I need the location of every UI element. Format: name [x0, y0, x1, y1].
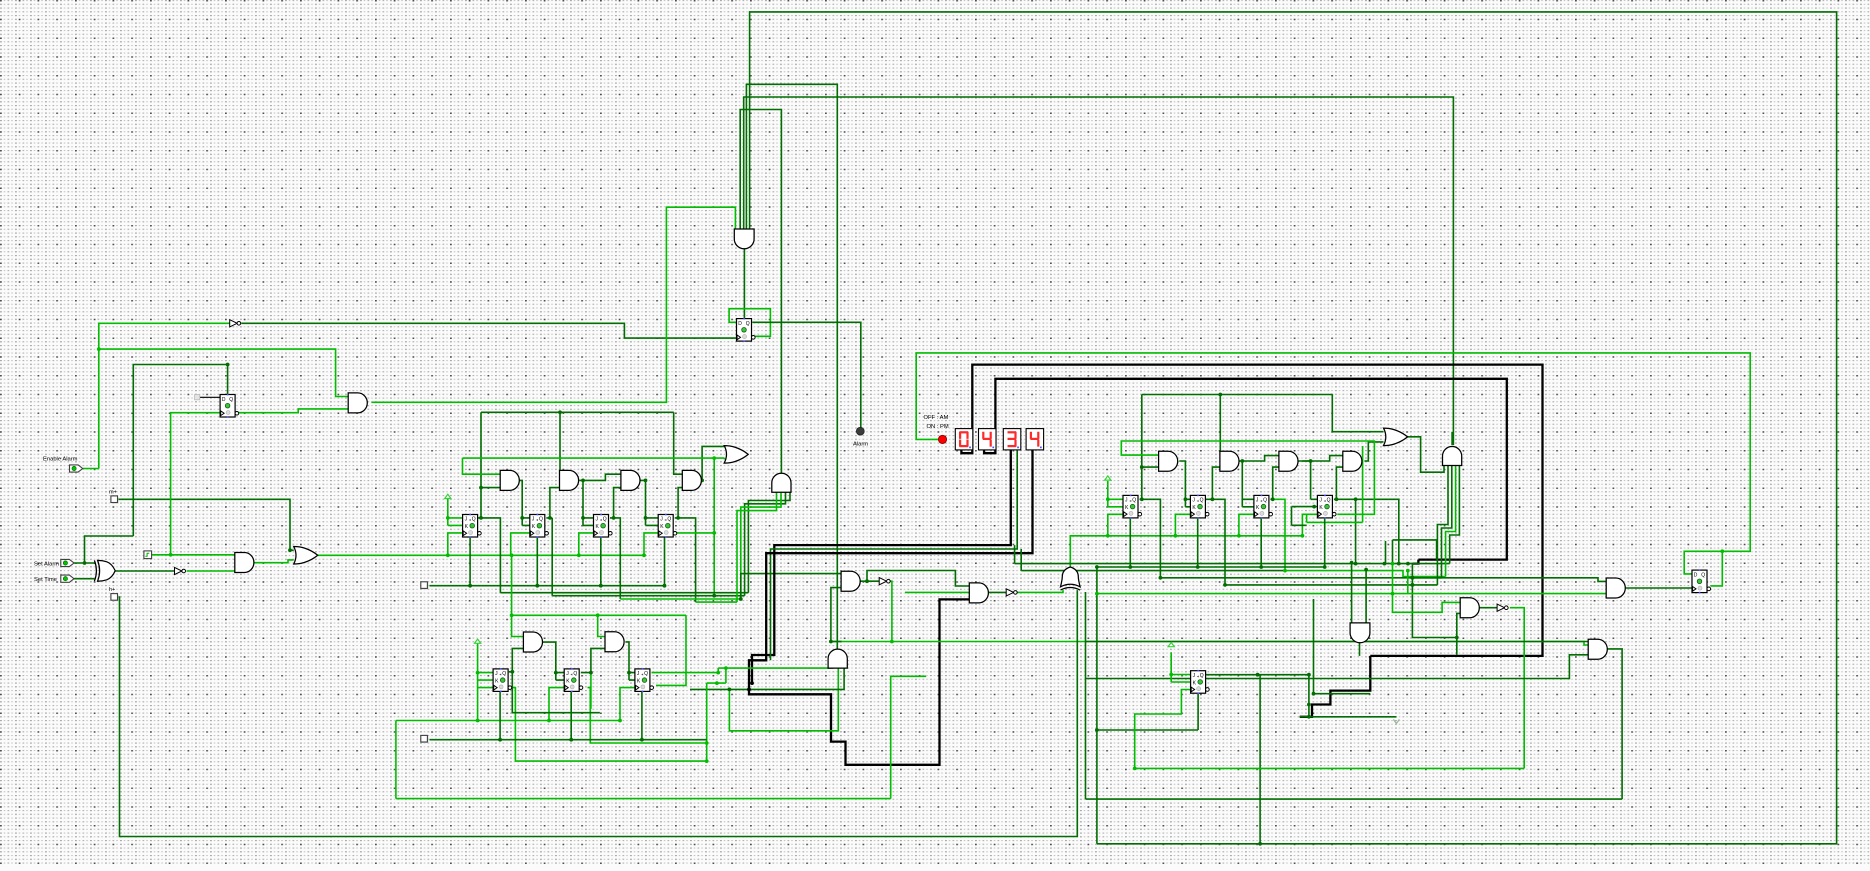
wire Q1 top line: [1142, 394, 1333, 396]
display DS2 digit 4: [979, 429, 997, 450]
wire clock CLK1 to AND U7: [152, 554, 235, 556]
wire bundle row 1 to AND G20: [1450, 466, 1460, 564]
wire NAND U8 output to flip-flop U14: [743, 249, 745, 319]
wire knot row: [707, 682, 726, 684]
wire branch down: [1308, 675, 1310, 717]
wire clock stub FF1: [448, 533, 463, 555]
wire FF H3 Q down to bundle: [1273, 499, 1285, 570]
wire bundle row 2 to AND G20: [1446, 466, 1456, 577]
wire bundle vertical: [1313, 599, 1315, 694]
wire bundle row 4: [1225, 584, 1437, 586]
wire to AND G8 input 2: [905, 591, 969, 593]
wire carry-enable line to AND G1: [463, 458, 715, 474]
wire NOT U9 output down: [889, 581, 892, 641]
wire clock stub FF2: [511, 533, 530, 555]
wire Enable Alarm to NOT U2: [83, 323, 230, 468]
wire clock stub FF4: [644, 533, 658, 555]
wire bundle drop: [1385, 541, 1387, 564]
wire FF2 Q to AND G2: [546, 488, 559, 518]
wire FF H1 Q to AND G15 and up: [1142, 395, 1159, 500]
wire bus row 1: [500, 592, 748, 594]
led Alarm: [856, 427, 864, 435]
wire lower reset line: [430, 739, 707, 741]
wire AND G2 output to FF3 J K: [579, 480, 593, 525]
and gate G25 facing down: [1350, 623, 1370, 643]
wire bus row 3: [620, 598, 741, 600]
wire bus drop to bundle row 2: [1021, 549, 1285, 571]
probe mark: [1393, 719, 1399, 723]
wire XOR G9 output - hour clock line: [1070, 536, 1302, 567]
wire hour reset line: [1097, 566, 1325, 568]
wire match line to AND G24: [831, 642, 1588, 646]
wire FF H4 Q to bundle drop 2: [1356, 499, 1399, 563]
and gate G23: [1460, 598, 1479, 618]
and gate G15: [1159, 451, 1178, 471]
wire long match line to AND G22 input 1: [1086, 641, 1589, 643]
input pin Set Alarm: [61, 559, 74, 566]
wire FF L1 Qbar to knot: [512, 688, 707, 762]
wire bright staircase FF H4 clock: [1307, 446, 1363, 522]
and gate G17: [1279, 451, 1298, 471]
wire AND G11 output to FF L3 J K: [625, 642, 635, 680]
wire bus drop to bundle row 1: [1015, 545, 1450, 564]
or gate G5 minute carry: [724, 446, 748, 464]
flip-flop FF4 minute: [658, 514, 677, 538]
display DS1 digit 0: [955, 429, 973, 450]
and gate G24: [1606, 578, 1625, 598]
wire bundle to AND G24 input 2: [1097, 593, 1606, 595]
wire power and clock FF L1: [478, 643, 494, 721]
wire clock branch to flip-flop U13 clock: [171, 413, 221, 555]
svg-text:Enable Alarm: Enable Alarm: [43, 457, 78, 463]
wire FF H1 Q down to bundle: [1142, 499, 1161, 578]
wire carry line to FF L3 Qbar: [656, 615, 686, 685]
wire FF H2 Q to AND G16: [1206, 467, 1220, 499]
wire hour FF reset stub: [1324, 518, 1326, 567]
wire AND G18 output to OR G19: [1364, 442, 1383, 461]
wire dangling line: [1300, 716, 1397, 718]
wire FF H4 Q down to bundle: [1336, 499, 1355, 563]
wire branch to OR G19 top: [1332, 395, 1383, 432]
wire FF L1 Q lower route: [512, 672, 600, 713]
output pin m=: [421, 582, 429, 590]
wire power to FF U21 J K: [1171, 652, 1190, 682]
wire AND U3 output to NAND U8 input 1: [371, 207, 735, 402]
bus display DS3 to minute decode: [752, 450, 1011, 683]
wire AND U7 output to OR U6: [254, 560, 294, 563]
or gate G19 hour carry: [1384, 428, 1408, 446]
wire AND G20 output to NAND U8 input 3: [744, 97, 1454, 445]
wire Q1 line drop to AND G4 top: [674, 412, 683, 474]
output pin m+: [111, 496, 119, 504]
wire hour clock stub FF H3: [1239, 514, 1254, 536]
wire knot cross link: [725, 668, 727, 683]
wire AND G10 output to FF L2 J K: [542, 642, 564, 680]
wire branch to AND G16 top: [1219, 395, 1221, 456]
and gate G1: [500, 470, 519, 490]
wire knot detour to AND G12 input 2: [729, 667, 838, 731]
wire FF U21 reset: [1097, 693, 1198, 730]
bus display DS2 to hour decode: [984, 379, 1507, 560]
wire FF H2 Q down to bundle: [1212, 499, 1225, 585]
wire Set Alarm to XOR U4: [74, 562, 94, 564]
bus jog: [1412, 560, 1418, 564]
wire flip-flop U14 Q to Alarm LED: [752, 322, 861, 427]
wire branch down to bus row: [713, 458, 715, 596]
wire bundle link down: [1392, 564, 1394, 594]
wire bundle row 3 to AND G24 input 1: [1412, 578, 1606, 582]
or gate U6 gated clock: [294, 547, 318, 565]
xor gate G9 hour clock: [1061, 567, 1081, 590]
wire minute reset line: [430, 585, 665, 587]
wire bundle to AND G23 input 1: [1393, 594, 1461, 613]
and gate G20 hour match: [1443, 447, 1462, 466]
power constant P2: [1105, 476, 1111, 480]
wire knot to AND G12 input 3: [690, 667, 844, 690]
not gate U11: [1497, 604, 1508, 611]
wire clock to FF U21: [1135, 690, 1191, 769]
wire FF4 Q to AND G4: [675, 488, 683, 518]
and gate G2: [560, 470, 579, 490]
wire junction dots: [83, 347, 1725, 845]
wire Set Alarm branch to flip-flop U13 preset: [85, 365, 228, 564]
wire clock stub FF L3: [620, 688, 635, 721]
wire lower feedback line: [396, 798, 891, 800]
wire AND G6 output to NAND U8 input 2: [740, 110, 781, 474]
flip-flop FFH2 hour: [1190, 495, 1209, 519]
power constant P1: [445, 494, 451, 498]
wire AND G16 output to AND G17 top: [1242, 456, 1279, 461]
wire FF4 Q down to bus row: [678, 518, 696, 602]
wire line to AND G22 input 2: [1086, 655, 1589, 679]
bus tail to AND G8: [749, 599, 969, 764]
wire to OR G5 input: [714, 458, 724, 459]
wire FF H4 Qbar to AND G15 top: [1121, 441, 1374, 514]
wire feedback branch: [891, 676, 927, 798]
nand gate U8 alarm compare: [734, 229, 754, 249]
bus display DS1 to hour decode: [961, 365, 1542, 656]
wire lower FF reset stub: [641, 692, 643, 740]
wire bus row 4 up to AND G6: [737, 492, 777, 602]
xor gate U4 set-select: [94, 560, 115, 581]
power constant P4: [1168, 643, 1174, 647]
wire FF reset stub: [536, 536, 538, 586]
wire NOT U5 output to AND U7: [187, 570, 235, 572]
flip-flop FF3 minute: [594, 514, 613, 538]
wire lower FF reset stub: [499, 692, 501, 740]
wire NOT U2 output to flip-flop U14 clock: [241, 323, 736, 338]
wire AND G4 output to OR G5: [701, 446, 724, 480]
wire branch to hour reset line: [1096, 567, 1098, 844]
wire clock stub FF3: [579, 533, 594, 555]
wire FF L1 Q to AND G10: [509, 648, 524, 671]
wire bundle row to AND G25 input 1: [1351, 563, 1353, 623]
input pin Enable Alarm: [70, 465, 83, 472]
not gate U2 enable inverter: [230, 320, 241, 327]
flip-flop U13 set-mode: [220, 394, 239, 418]
wire AND G12 output to NAND U8 input 4: [746, 84, 837, 649]
wire AND G3 output to FF4 J K: [640, 480, 659, 525]
wire OR G19 output to AND G20 input 1: [1405, 437, 1444, 472]
and gate G3: [621, 470, 640, 490]
wire branch to AND G11 top: [598, 615, 605, 636]
wire power to FF1 J K: [448, 498, 463, 525]
clock source CLK1: [144, 551, 152, 559]
wire AND G25 output stub: [1359, 642, 1361, 656]
wire bundle row 3 to AND G20: [1442, 466, 1452, 578]
wire AND G23 output to NOT U11: [1479, 607, 1497, 609]
wire: [1456, 638, 1458, 655]
wire gated clock line minutes: [318, 554, 646, 556]
wire FF3 Q to AND G3: [610, 488, 621, 518]
wire AND G22 output feedback line: [1086, 649, 1623, 799]
and gate U3 set-compare: [348, 393, 367, 413]
and gate G22: [1588, 639, 1607, 659]
wire FF L2 Q to AND G11: [581, 648, 605, 672]
wire bus row 3 up to AND G6: [741, 492, 781, 599]
wire FF reset stub: [664, 536, 666, 586]
wire feedback to lower clock line: [395, 721, 397, 799]
wire bundle row 4 to AND G20: [1437, 466, 1448, 585]
svg-text:Alarm: Alarm: [853, 442, 868, 448]
wire to AND G7 input 2: [831, 588, 841, 642]
and gate G10: [523, 632, 542, 652]
wire hour FF reset stub: [1129, 518, 1131, 567]
wire bundle link: [1312, 693, 1370, 695]
wire bundle link up: [1393, 540, 1437, 564]
wire FF H1 Q: [1140, 498, 1142, 500]
and gate G16: [1220, 451, 1239, 471]
wire FF L2 Qbar to knot: [588, 688, 707, 743]
wire hour FF reset stub: [1197, 518, 1199, 567]
wire hour clock stub FF H4: [1302, 514, 1317, 536]
wire AND G17 output to AND G18 top: [1302, 456, 1343, 461]
and gate G11: [605, 632, 624, 652]
wire FF U22 Qbar feedback to D: [1684, 551, 1722, 586]
wire FF1 Q to AND G1: [478, 488, 501, 518]
wire lower carry line: [512, 614, 686, 616]
wire flip-flop U13 Qbar to AND U3: [239, 409, 348, 413]
wire branch from FF U21 Q line: [1259, 675, 1261, 844]
wire stub: [831, 641, 842, 643]
wire m+ to OR U6 top input: [118, 499, 294, 550]
flip-flop FF2 minute: [530, 514, 549, 538]
svg-text:OFF : AM: OFF : AM: [924, 415, 949, 421]
and gate G12 lower match: [828, 649, 847, 668]
bus display DS4 to minute decode: [749, 450, 1033, 689]
display DS3 digit 3: [1003, 429, 1021, 450]
wire knot drop: [706, 683, 708, 761]
led AM-PM indicator: [938, 435, 946, 443]
wire lower clock line: [396, 720, 620, 722]
wire FF H4 K from left: [1292, 507, 1318, 526]
wire clock stub FF L2: [549, 688, 564, 721]
wire FF U21 Q line: [1206, 674, 1309, 676]
svg-text:ON : PM: ON : PM: [927, 424, 949, 430]
and gate G8: [969, 583, 988, 603]
wire bundle row 3: [1160, 577, 1441, 579]
wire bus row 3 branch to AND G7: [741, 574, 841, 599]
wire AND G7 output to NOT U9: [860, 580, 879, 582]
wire FF1 Q up to Q1 line: [480, 412, 482, 487]
wire AND G7 branch to AND G8 input 1: [867, 571, 969, 587]
and gate G7: [841, 571, 860, 591]
wire FF L2 Q down: [590, 673, 592, 709]
and gate G18: [1343, 451, 1362, 471]
flip-flop FFL1: [493, 668, 512, 692]
wire Q1 line drop to AND G2 top: [559, 412, 561, 474]
wire hour-set clock line: [1135, 767, 1525, 769]
wire FF4 Qbar to carry line: [677, 532, 715, 534]
wire enable branch to AND U3 top input: [99, 349, 348, 396]
flip-flop U14 alarm latch: [737, 318, 756, 342]
output pin s=: [421, 735, 429, 743]
wire bus row 1 up to AND G6: [748, 492, 790, 592]
wire power to FF H1 J K: [1108, 481, 1123, 507]
wire AND G17 output to FF H4 J: [1298, 461, 1317, 499]
and gate G6 minute match: [772, 473, 791, 492]
not gate U10: [1006, 589, 1017, 596]
wire AM-PM LED to FF U22: [916, 353, 1750, 551]
wire NOT U10 output to XOR G9: [1017, 590, 1063, 592]
wire bundle vertical bright: [1407, 571, 1409, 594]
output pin h+: [111, 594, 119, 602]
wire Q1 line: [481, 411, 674, 413]
not gate U9: [879, 578, 890, 585]
flip-flop FFH3 hour: [1254, 495, 1273, 519]
wire AND G2 output to AND G3 top: [583, 474, 621, 480]
wire hour clock stub FF H1: [1108, 514, 1123, 536]
display DS4 digit 4: [1026, 429, 1044, 450]
wire bus row 4: [696, 601, 737, 603]
svg-text:h+: h+: [109, 587, 115, 593]
wire bus tail to AND G23: [1412, 564, 1460, 638]
flip-flop FFL3: [635, 668, 654, 692]
wire hour clock stub FF H2: [1175, 514, 1190, 536]
wire FF Q to knot: [652, 672, 719, 674]
wire display DS3 second line: [771, 451, 1018, 661]
power constant P3: [475, 639, 481, 643]
wire h+ to XOR G9 input 2: [118, 590, 1077, 836]
wire hour FF reset stub: [1260, 518, 1262, 567]
bus jog hour decode: [1300, 656, 1371, 717]
wire knot to AND G12 input 1: [718, 667, 832, 673]
wire bundle row 2: [1285, 571, 1446, 577]
and gate U7 clock gate: [235, 553, 254, 573]
flip-flop U22 am-pm: [1692, 569, 1711, 593]
not gate U5: [175, 567, 186, 574]
wire lower FF reset stub: [570, 692, 572, 740]
wire bus row 2 up to AND G6: [745, 492, 786, 595]
wire FF1 Q down to bus row: [481, 518, 500, 593]
svg-text:Set Time: Set Time: [34, 577, 57, 583]
svg-text:m+: m+: [109, 490, 117, 496]
flip-flop FFH4 hour: [1317, 495, 1336, 519]
flip-flop FF1 minute: [463, 514, 482, 538]
wire flip-flop U14 Qbar feedback to D: [729, 309, 770, 337]
wire FF reset stub: [600, 536, 602, 586]
wire Set Time to XOR U4: [74, 578, 94, 580]
flip-flop FFL2: [564, 668, 583, 692]
wire branch down to feedback line: [1085, 592, 1087, 799]
wire FF H3 Q to AND G17: [1270, 467, 1279, 499]
wire XOR U4 output to NOT U5: [115, 570, 174, 572]
wire AND G8 output to NOT U10: [988, 591, 1007, 593]
wire AND G20 output stub: [1451, 432, 1453, 445]
input pin Set Time: [61, 575, 74, 582]
wire AND G15 output to FF H2 J K: [1179, 461, 1190, 507]
wire AND G16 output to FF H3 J K: [1238, 461, 1254, 507]
wire FF H4 Q to AND G18: [1334, 467, 1343, 499]
wire loop line to NAND U8 input 5: [750, 12, 1837, 844]
wire NOT U11 output down: [1510, 608, 1524, 769]
and gate G4: [682, 470, 701, 490]
wire AND G24 output to FF U22 clock: [1626, 587, 1692, 589]
wire bundle row to AND G25 input 2: [1365, 570, 1367, 623]
flip-flop FFH1 hour: [1123, 495, 1142, 519]
svg-text:Set Alarm: Set Alarm: [34, 562, 59, 568]
wire bus row 2: [552, 595, 744, 597]
wire AND G1 output to FF2 J K: [519, 480, 530, 525]
wire FF3 Q down to bus row: [614, 518, 621, 599]
wire FF2 Q down to bus row: [550, 518, 552, 596]
flip-flop U21 hour-set: [1191, 670, 1210, 694]
wire gated line to AND G10 top: [512, 555, 524, 636]
wire FF reset stub: [469, 536, 471, 586]
